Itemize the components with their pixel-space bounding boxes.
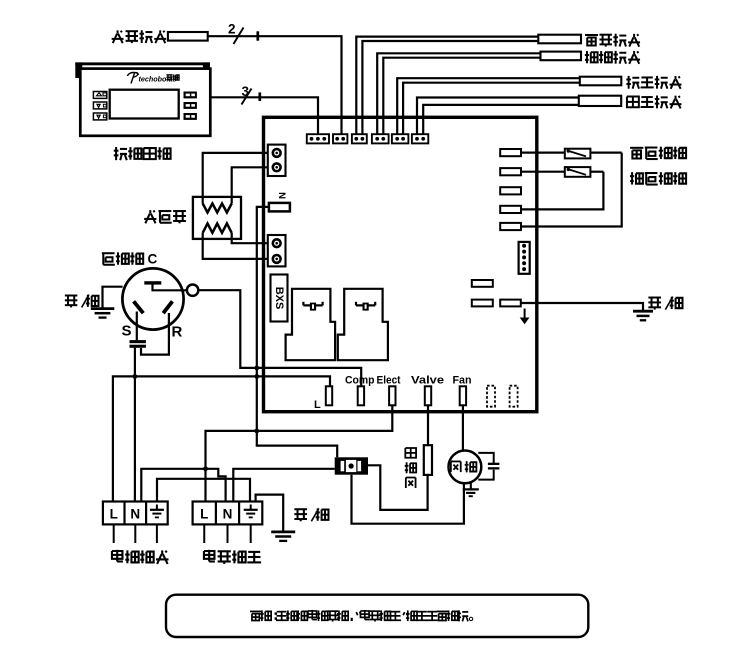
- svg-text:Comp: Comp: [345, 375, 375, 387]
- svg-text:R: R: [172, 324, 183, 341]
- svg-text:Elect: Elect: [377, 375, 401, 387]
- svg-text:N: N: [130, 507, 140, 522]
- svg-text:C: C: [148, 252, 158, 267]
- svg-text:N: N: [223, 507, 233, 522]
- svg-text:2: 2: [228, 22, 236, 37]
- svg-text:S: S: [122, 323, 132, 340]
- svg-text:3: 3: [242, 84, 250, 99]
- svg-text:Valve: Valve: [411, 375, 444, 387]
- svg-text:BXS: BXS: [273, 287, 285, 310]
- svg-text:N: N: [276, 192, 287, 199]
- svg-text:L: L: [200, 507, 208, 522]
- svg-text:L: L: [314, 399, 321, 411]
- svg-text:L: L: [110, 507, 118, 522]
- svg-text:Fan: Fan: [453, 375, 472, 387]
